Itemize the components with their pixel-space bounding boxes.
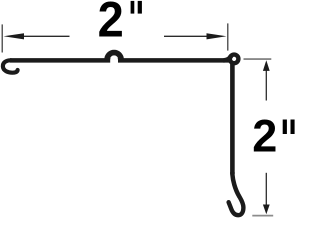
left hook (hemmed edge, open curl) <box>3 60 18 72</box>
bottom hook (drip return curl) <box>229 197 244 216</box>
top label inch mark bar 2 <box>138 1 142 14</box>
top label inch mark bar 1 <box>131 1 135 14</box>
horizontal dimension line left segment <box>22 35 70 37</box>
right hem curl riser junction <box>224 56 232 61</box>
center bump (crimp rib) <box>107 53 121 60</box>
top flange (horizontal face) <box>10 58 230 63</box>
horizontal dimension right arrowhead <box>207 33 227 39</box>
right label inch mark bar 2 <box>291 120 295 135</box>
right hem curl (rolled edge loop) <box>230 55 239 64</box>
vertical dimension bottom extension line (gray) <box>252 215 273 217</box>
horizontal dimension line right segment <box>164 35 208 37</box>
center bump white cutout <box>110 56 118 64</box>
vertical leg (fascia face) <box>230 62 235 174</box>
vertical dimension up arrowhead <box>263 60 270 71</box>
svg-text:2: 2 <box>252 110 277 161</box>
vertical dimension top extension line (gray) <box>244 58 272 60</box>
left extension line <box>1 24 3 52</box>
right label inch mark bar 1 <box>283 120 287 135</box>
kick-out segment (flares outward) <box>232 172 239 197</box>
svg-text:2: 2 <box>98 0 124 48</box>
vertical dimension line lower segment <box>265 173 267 207</box>
vertical dimension down arrowhead <box>263 205 270 215</box>
right extension line <box>227 23 229 50</box>
horizontal dimension left arrowhead <box>4 33 25 39</box>
vertical dimension line upper segment <box>265 69 267 101</box>
